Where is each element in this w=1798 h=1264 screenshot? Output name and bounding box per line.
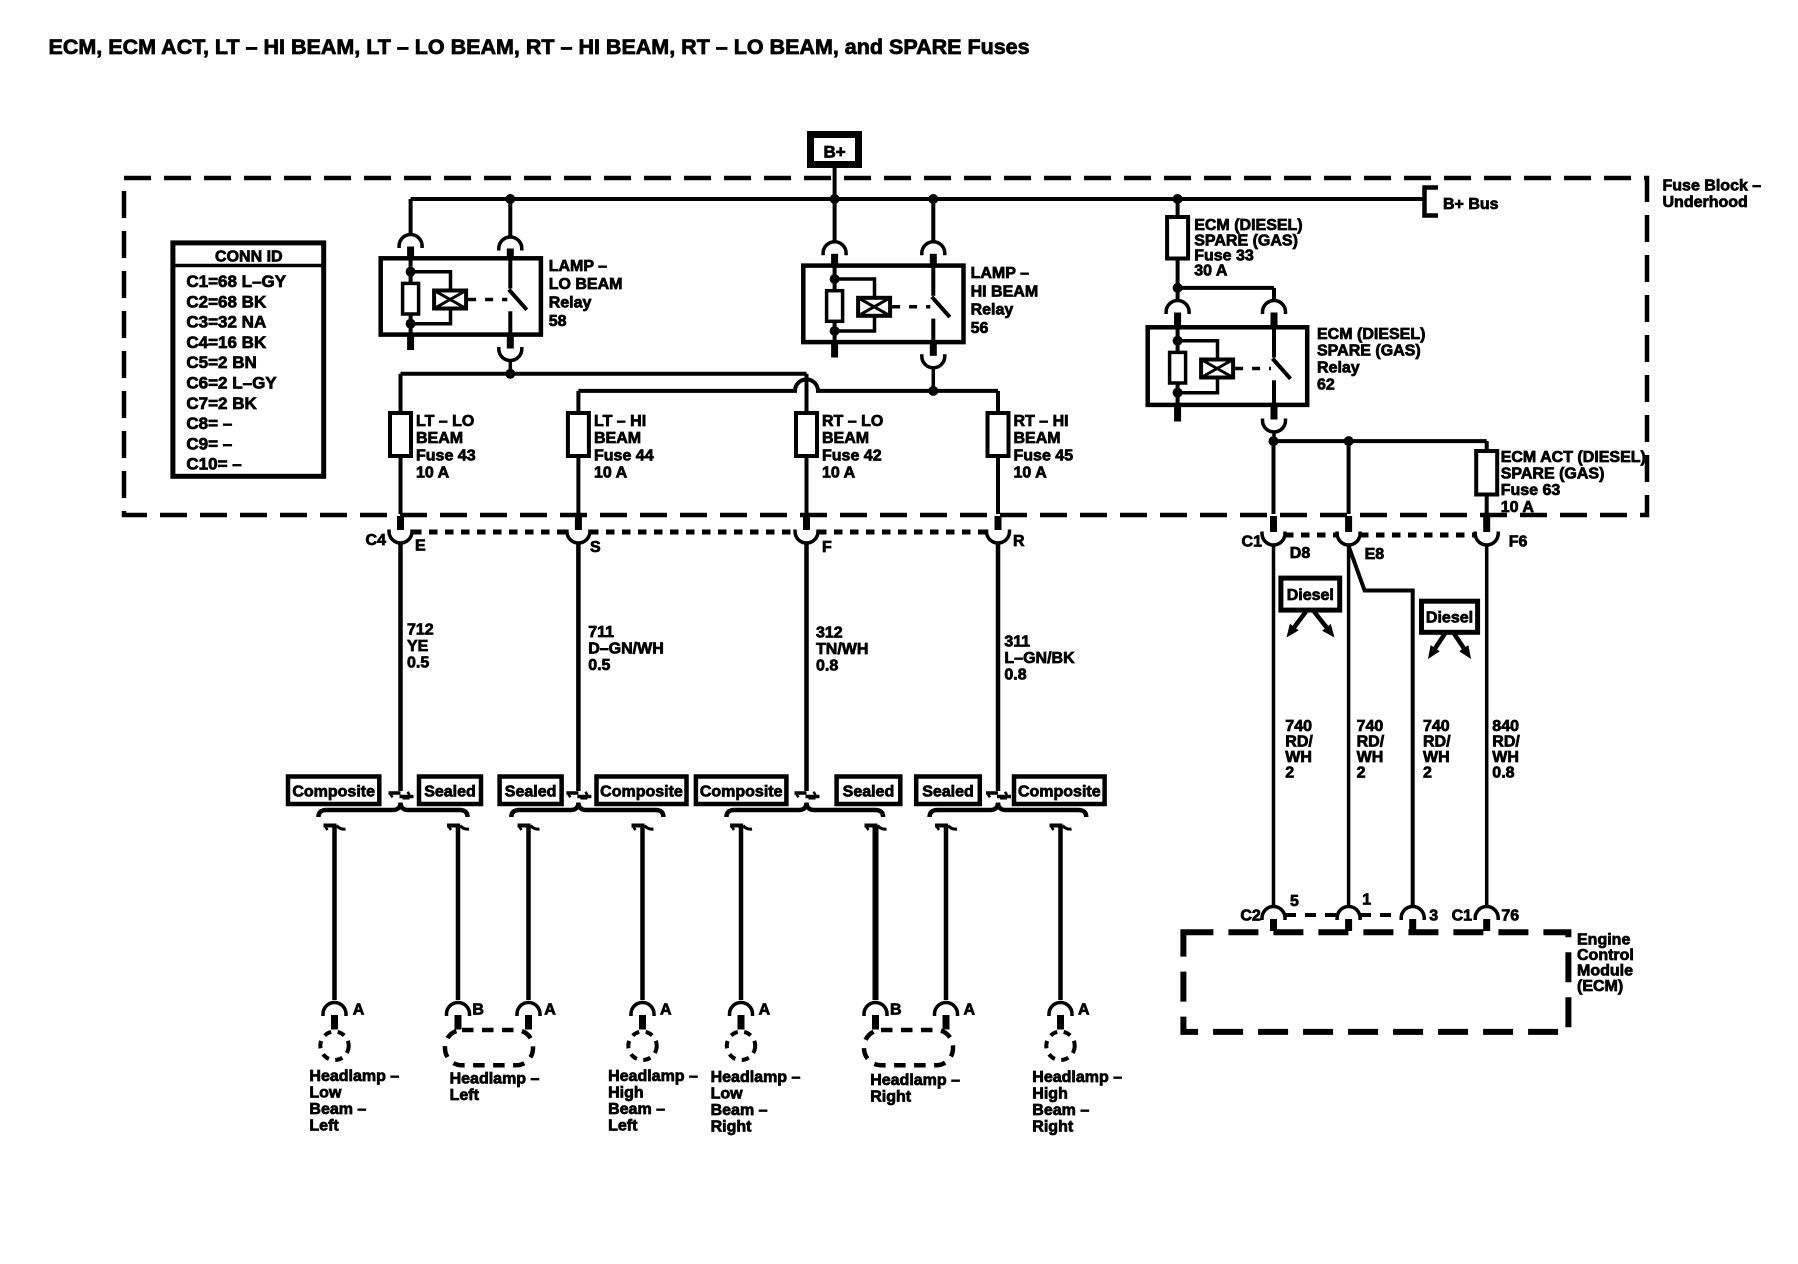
- ecm feed line: [1274, 439, 1487, 443]
- svg-text:740: 740: [1423, 718, 1450, 735]
- svg-text:Fuse 44: Fuse 44: [594, 447, 654, 464]
- diesel arrow left 1: [1294, 612, 1306, 628]
- pin stub ECM C2 pin 5: [1270, 919, 1277, 931]
- svg-text:Engine: Engine: [1577, 932, 1630, 949]
- svg-text:0.8: 0.8: [816, 657, 838, 674]
- wire to fuse44: [576, 391, 580, 413]
- svg-text:A: A: [759, 1002, 771, 1019]
- svg-text:A: A: [353, 1002, 365, 1019]
- connector line C1 right (dotted): [1285, 533, 1337, 538]
- svg-text:711: 711: [588, 624, 614, 641]
- pin stub ECM pin 1: [1345, 919, 1352, 931]
- svg-text:ECM, ECM ACT, LT – HI BEAM, LT: ECM, ECM ACT, LT – HI BEAM, LT – LO BEAM…: [49, 35, 1030, 59]
- svg-text:WH: WH: [1492, 749, 1519, 766]
- relay ECM (DIESEL) SPARE (GAS) Relay 62: [1148, 327, 1308, 405]
- svg-text:10 A: 10 A: [594, 465, 628, 482]
- svg-text:0.8: 0.8: [1004, 666, 1026, 683]
- svg-text:Sealed: Sealed: [843, 784, 895, 801]
- connector arc relay56 pin 2: [922, 242, 945, 256]
- wire end split F: [795, 791, 807, 795]
- wire fuse45 to connector R: [996, 456, 1000, 514]
- junction fuse33/relay62 pins: [1173, 283, 1183, 293]
- pin stub lamp LB-L: [331, 1015, 338, 1030]
- pin stub relay62 switch: [1271, 313, 1278, 329]
- svg-text:L–GN/BK: L–GN/BK: [1004, 650, 1075, 667]
- wire node to connector C1/D8: [1272, 441, 1276, 514]
- svg-text:Diesel: Diesel: [1426, 610, 1473, 627]
- svg-text:312: 312: [816, 625, 843, 642]
- svg-text:Module: Module: [1577, 963, 1633, 980]
- connector cup F: [795, 530, 818, 544]
- svg-text:Fuse 45: Fuse 45: [1014, 447, 1074, 464]
- junction E8 tap: [1344, 436, 1354, 446]
- svg-text:Right: Right: [711, 1119, 753, 1136]
- relay58 output stub: [507, 335, 514, 349]
- wire to lamp R pin A: [944, 827, 949, 1000]
- pin stub lamp LB-R: [738, 1015, 745, 1030]
- wire B+ to bus: [833, 167, 837, 199]
- wire 311 L-GN/BK: [996, 543, 1001, 791]
- svg-text:C5=2 BN: C5=2 BN: [186, 353, 256, 372]
- svg-text:Diesel: Diesel: [1287, 587, 1334, 604]
- svg-text:WH: WH: [1357, 749, 1384, 766]
- svg-text:10 A: 10 A: [1014, 465, 1048, 482]
- svg-text:Left: Left: [309, 1118, 339, 1135]
- svg-text:10 A: 10 A: [822, 465, 856, 482]
- svg-text:B+: B+: [823, 143, 845, 162]
- brace group left low beam: [319, 803, 468, 818]
- wire E8 split to pin 3: [1349, 546, 1413, 906]
- wire 740 RD/WH E8 to pin 1: [1347, 545, 1351, 906]
- Diesel callout box 1: [1281, 578, 1340, 610]
- svg-text:Control: Control: [1577, 947, 1634, 964]
- option box Composite: [1014, 777, 1105, 805]
- brace group right low beam: [727, 803, 884, 818]
- connector cup F6: [1475, 532, 1498, 546]
- svg-text:Composite: Composite: [292, 784, 375, 801]
- connector arc lamp HB-L: [631, 1003, 654, 1017]
- wire fuse42 to connector F: [805, 456, 809, 514]
- fuse RT-HI BEAM Fuse 45: [988, 413, 1009, 456]
- relay58 coil lower stub: [407, 335, 414, 350]
- wire to lamp L pin B: [456, 827, 461, 1000]
- svg-text:840: 840: [1492, 718, 1519, 735]
- svg-text:712: 712: [407, 622, 434, 639]
- svg-text:D–GN/WH: D–GN/WH: [588, 641, 664, 658]
- headlamp Right sealed (dashed stadium): [864, 1030, 953, 1065]
- svg-text:RD/: RD/: [1285, 733, 1313, 750]
- wire to fuse43: [399, 374, 403, 413]
- wire end split R: [986, 791, 998, 795]
- svg-text:ECM (DIESEL): ECM (DIESEL): [1317, 326, 1425, 343]
- wire bus to relay56 switch pin: [931, 201, 935, 241]
- connector arc relay56 pin 1: [823, 242, 846, 256]
- wire hook lamp R pin A: [935, 824, 948, 828]
- wire hook lamp L pin A: [518, 824, 531, 828]
- svg-text:Headlamp –: Headlamp –: [1032, 1069, 1122, 1086]
- svg-text:Beam –: Beam –: [711, 1102, 768, 1119]
- svg-text:C4: C4: [366, 532, 387, 549]
- connector cup relay58 output: [499, 347, 522, 361]
- svg-text:High: High: [1032, 1086, 1068, 1103]
- svg-text:Headlamp –: Headlamp –: [870, 1072, 960, 1089]
- svg-text:B: B: [472, 1002, 484, 1019]
- connector arc relay58 pin 1: [399, 235, 422, 249]
- wire node to connector E8: [1347, 441, 1351, 514]
- svg-text:5: 5: [1290, 893, 1299, 910]
- CONN ID table: [173, 243, 324, 476]
- svg-text:Right: Right: [1032, 1119, 1074, 1136]
- svg-text:58: 58: [549, 313, 567, 330]
- wire to lamp L pin A: [526, 827, 531, 1000]
- relay56 coil lower stub: [831, 342, 838, 357]
- wire to relay62 switch pin: [1178, 286, 1274, 290]
- svg-text:BEAM: BEAM: [1014, 430, 1061, 447]
- connector stub C1/D8: [1270, 516, 1277, 532]
- wire 740 RD/WH D8 to C2-5: [1272, 545, 1276, 906]
- connector arc relay58 pin 2: [499, 237, 522, 251]
- svg-text:Headlamp –: Headlamp –: [711, 1069, 801, 1086]
- hi beam feed line with crossover hop: [578, 379, 998, 390]
- svg-text:2: 2: [1357, 764, 1366, 781]
- connector arc lamp HB-R: [1049, 1003, 1072, 1017]
- connector arc ECM pin 3: [1401, 907, 1424, 921]
- relay LAMP - LO BEAM Relay 58: [381, 258, 541, 334]
- wire down to relay62 switch pin: [1272, 288, 1276, 300]
- svg-text:Left: Left: [608, 1118, 638, 1135]
- connector cup S: [567, 530, 590, 544]
- wire fuse63 to connector F6: [1485, 495, 1489, 515]
- connector arc lamp R pin A: [935, 1003, 958, 1017]
- wire to lamp LB-L: [332, 827, 337, 1000]
- svg-text:A: A: [1078, 1002, 1090, 1019]
- svg-text:E: E: [415, 538, 426, 555]
- svg-text:C4=16 BK: C4=16 BK: [186, 333, 267, 352]
- svg-text:C2=68 BK: C2=68 BK: [186, 292, 267, 311]
- Engine Control Module dashed box: [1183, 932, 1568, 1032]
- wire end split S: [566, 791, 578, 795]
- svg-text:LO BEAM: LO BEAM: [549, 276, 623, 293]
- connector cup R: [987, 530, 1010, 544]
- svg-text:RT – LO: RT – LO: [822, 413, 883, 430]
- svg-text:BEAM: BEAM: [822, 430, 869, 447]
- svg-text:Sealed: Sealed: [922, 784, 974, 801]
- option box Composite: [288, 777, 379, 805]
- wire hook lamp L pin B: [447, 824, 460, 828]
- junction relay62 output: [1269, 436, 1279, 446]
- junction relay56 output / hi-beam feed line: [928, 386, 938, 396]
- wire relay56 output to node: [932, 368, 936, 391]
- svg-text:Beam –: Beam –: [309, 1101, 366, 1118]
- svg-text:Low: Low: [309, 1085, 342, 1102]
- svg-text:Relay: Relay: [971, 302, 1014, 319]
- svg-text:Composite: Composite: [700, 784, 783, 801]
- svg-text:ECM ACT (DIESEL): ECM ACT (DIESEL): [1501, 449, 1646, 466]
- wire hook lamp R pin B: [865, 824, 878, 828]
- pin stub lamp L pin B: [455, 1015, 462, 1030]
- svg-text:0.5: 0.5: [588, 657, 610, 674]
- headlamp Left sealed (dashed stadium): [445, 1030, 533, 1065]
- connector cup relay62 output: [1263, 419, 1286, 433]
- wire hook lamp HB-L: [632, 824, 645, 828]
- connector arc lamp L pin A: [517, 1003, 540, 1017]
- fuse LT-HI BEAM Fuse 44: [568, 413, 589, 456]
- svg-text:C1: C1: [1452, 908, 1473, 925]
- svg-text:Sealed: Sealed: [424, 784, 476, 801]
- svg-text:Relay: Relay: [549, 295, 592, 312]
- svg-text:740: 740: [1357, 718, 1384, 735]
- svg-text:Sealed: Sealed: [505, 784, 557, 801]
- svg-text:0.8: 0.8: [1492, 764, 1514, 781]
- svg-text:RT – HI: RT – HI: [1014, 413, 1069, 430]
- svg-text:1: 1: [1362, 892, 1371, 909]
- svg-text:Headlamp –: Headlamp –: [450, 1071, 540, 1088]
- svg-text:Headlamp –: Headlamp –: [309, 1068, 399, 1085]
- wire to lamp HB-R: [1058, 827, 1063, 1000]
- svg-text:R: R: [1013, 533, 1025, 550]
- wire bus to relay58 switch pin: [508, 201, 512, 237]
- relay LAMP - HI BEAM Relay 56: [803, 266, 963, 343]
- connector arc ECM C2 pin 5: [1262, 907, 1285, 921]
- wire bus to relay58 coil pin: [409, 199, 413, 234]
- fuse LT-LO BEAM Fuse 43: [390, 413, 411, 456]
- svg-text:S: S: [590, 539, 601, 556]
- svg-text:WH: WH: [1285, 749, 1312, 766]
- junction relay58 output / lo-beam feed line: [505, 369, 515, 379]
- B+ bus wire: [411, 197, 1423, 201]
- wire to lamp HB-L: [640, 827, 645, 1000]
- svg-text:Fuse 42: Fuse 42: [822, 447, 882, 464]
- relay62 coil lower stub: [1174, 405, 1181, 422]
- B+ power feed box: [811, 135, 859, 165]
- svg-text:LAMP –: LAMP –: [971, 265, 1029, 282]
- svg-text:C6=2 L–GY: C6=2 L–GY: [186, 374, 277, 393]
- connector arc ECM C1 pin 76: [1475, 907, 1498, 921]
- connector cup E8: [1337, 532, 1360, 546]
- svg-text:BEAM: BEAM: [416, 430, 463, 447]
- svg-text:LT – LO: LT – LO: [416, 413, 474, 430]
- svg-text:B: B: [890, 1002, 902, 1019]
- svg-text:SPARE (GAS): SPARE (GAS): [1317, 343, 1421, 360]
- connector arc lamp LB-R: [730, 1003, 753, 1017]
- wire 840 RD/WH F6 to C1-76: [1485, 545, 1489, 906]
- Diesel callout box 2: [1422, 601, 1478, 632]
- svg-text:LAMP –: LAMP –: [549, 258, 607, 275]
- connector arc relay62 pin 1: [1166, 301, 1189, 315]
- connector arc relay62 pin 2: [1263, 301, 1286, 315]
- svg-text:B+ Bus: B+ Bus: [1443, 196, 1499, 213]
- headlamp Low Beam Right (dashed circle): [727, 1032, 755, 1060]
- svg-text:2: 2: [1285, 764, 1294, 781]
- option box Sealed: [837, 777, 901, 805]
- pin stub lamp HB-R: [1057, 1015, 1064, 1030]
- fuse ECM(DIESEL)/SPARE(GAS) Fuse 33 30A: [1167, 217, 1188, 259]
- svg-text:A: A: [660, 1002, 672, 1019]
- relay56 output stub: [930, 342, 937, 356]
- pin stub ECM C1 pin 76: [1483, 919, 1490, 931]
- junction bus/fuse33: [1173, 194, 1183, 204]
- pin stub relay58 coil: [407, 247, 414, 260]
- wire bus to relay56 coil pin: [833, 201, 837, 241]
- wire bus to fuse33: [1176, 201, 1180, 217]
- wire 712 YE: [398, 543, 403, 791]
- junction bus/relay58: [505, 194, 515, 204]
- svg-text:Relay: Relay: [1317, 360, 1360, 377]
- connector arc ECM pin 1: [1337, 907, 1360, 921]
- svg-text:56: 56: [971, 320, 989, 337]
- svg-text:Headlamp –: Headlamp –: [608, 1068, 698, 1085]
- wire hook lamp HB-R: [1050, 824, 1063, 828]
- connector stub F: [803, 516, 810, 530]
- pin stub lamp R pin A: [943, 1015, 950, 1030]
- connector stub E8: [1345, 516, 1352, 532]
- svg-text:C2: C2: [1240, 908, 1261, 925]
- diesel arrow right 1: [1314, 612, 1327, 628]
- connector cup E: [389, 530, 412, 544]
- pin stub relay62 coil: [1174, 313, 1181, 329]
- svg-text:RD/: RD/: [1423, 733, 1451, 750]
- svg-text:740: 740: [1285, 718, 1312, 735]
- svg-text:RD/: RD/: [1357, 733, 1385, 750]
- svg-text:2: 2: [1423, 764, 1432, 781]
- svg-text:Low: Low: [711, 1086, 744, 1103]
- wire 312 TN/WH: [804, 543, 809, 791]
- svg-text:A: A: [964, 1002, 976, 1019]
- wire end split E: [389, 791, 401, 795]
- headlamp High Beam Right (dashed circle): [1046, 1032, 1074, 1060]
- svg-text:F6: F6: [1509, 534, 1528, 551]
- wire 711 D-GN/WH: [576, 543, 581, 791]
- svg-text:10 A: 10 A: [416, 465, 450, 482]
- connector stub F6: [1483, 516, 1490, 532]
- brace group right hi beam: [930, 803, 1087, 818]
- svg-text:YE: YE: [407, 638, 429, 655]
- svg-text:Composite: Composite: [1018, 784, 1101, 801]
- svg-text:BEAM: BEAM: [594, 430, 641, 447]
- pin stub lamp HB-L: [639, 1015, 646, 1030]
- option box Composite: [597, 777, 687, 805]
- diesel arrow right 2: [1454, 634, 1464, 649]
- connector stub R: [995, 516, 1002, 530]
- svg-text:High: High: [608, 1085, 644, 1102]
- svg-text:RD/: RD/: [1492, 733, 1520, 750]
- wire to lamp LB-R: [739, 827, 744, 1000]
- junction bus/B+/relay56: [830, 194, 840, 204]
- pin stub relay56 coil: [831, 254, 838, 266]
- svg-text:SPARE (GAS): SPARE (GAS): [1501, 466, 1605, 483]
- connector stub S: [575, 516, 582, 530]
- wire to lamp R pin B: [873, 827, 879, 1000]
- connector arc lamp L pin B: [447, 1003, 470, 1017]
- svg-text:311: 311: [1004, 634, 1030, 651]
- svg-text:Beam –: Beam –: [1032, 1102, 1089, 1119]
- wire to fuse45: [996, 391, 1000, 413]
- relay62 output stub: [1271, 405, 1278, 420]
- connector cup relay56 output: [922, 354, 945, 368]
- headlamp Low Beam Left (dashed circle): [320, 1032, 348, 1060]
- wire relay58 output to node: [509, 361, 513, 374]
- svg-text:F: F: [822, 539, 832, 556]
- pin stub relay58 switch: [507, 249, 514, 260]
- diesel arrow left 2: [1435, 634, 1445, 649]
- connector arc lamp R pin B: [864, 1003, 887, 1017]
- svg-text:C1: C1: [1242, 534, 1263, 551]
- ECM pin row dashes: [1285, 913, 1337, 917]
- svg-text:C3=32 NA: C3=32 NA: [186, 313, 266, 332]
- option box Sealed: [500, 777, 562, 805]
- option box Sealed: [916, 777, 980, 805]
- svg-text:LT – HI: LT – HI: [594, 413, 646, 430]
- B+ Bus bracket terminal: [1425, 188, 1439, 216]
- pin stub lamp R pin B: [872, 1015, 879, 1030]
- svg-text:Fuse Block –: Fuse Block –: [1663, 178, 1762, 195]
- svg-text:Composite: Composite: [600, 784, 683, 801]
- wire hook lamp LB-L: [324, 824, 337, 828]
- svg-text:Underhood: Underhood: [1663, 194, 1748, 211]
- wire to fuse42: [805, 374, 809, 413]
- wire fuse43 to connector E: [399, 456, 403, 514]
- pin stub relay56 switch: [930, 254, 937, 266]
- svg-text:30 A: 30 A: [1194, 263, 1228, 280]
- svg-text:62: 62: [1317, 377, 1335, 394]
- svg-text:HI BEAM: HI BEAM: [971, 283, 1039, 300]
- junction bus/relay56 switch: [928, 194, 938, 204]
- svg-text:C9= –: C9= –: [186, 434, 232, 453]
- wire hook lamp LB-R: [730, 824, 743, 828]
- svg-text:C7=2 BK: C7=2 BK: [186, 394, 257, 413]
- fuse block underhood dashed border: [124, 178, 1647, 515]
- svg-text:WH: WH: [1423, 749, 1450, 766]
- svg-text:Beam –: Beam –: [608, 1101, 665, 1118]
- pin stub ECM pin 3: [1409, 919, 1416, 931]
- lo beam feed line: [401, 372, 807, 376]
- connector cup C1/D8: [1262, 532, 1285, 546]
- wire to fuse63: [1485, 441, 1489, 451]
- svg-text:TN/WH: TN/WH: [816, 641, 868, 658]
- option box Composite: [696, 777, 787, 805]
- connector stub E: [397, 516, 404, 530]
- svg-text:Fuse 63: Fuse 63: [1501, 482, 1561, 499]
- svg-text:Left: Left: [450, 1087, 480, 1104]
- svg-text:10 A: 10 A: [1501, 499, 1535, 516]
- svg-text:CONN ID: CONN ID: [215, 249, 283, 266]
- svg-text:Right: Right: [870, 1089, 912, 1106]
- svg-text:C1=68 L–GY: C1=68 L–GY: [186, 272, 286, 291]
- connector arc lamp LB-L: [323, 1003, 346, 1017]
- svg-text:E8: E8: [1365, 546, 1385, 563]
- wire relay62 output to node: [1272, 432, 1276, 441]
- pin stub lamp L pin A: [525, 1015, 532, 1030]
- svg-text:76: 76: [1501, 908, 1519, 925]
- fuse RT-LO BEAM Fuse 42: [796, 413, 817, 456]
- svg-text:D8: D8: [1290, 545, 1311, 562]
- wire fuse33 to relay62: [1176, 259, 1180, 300]
- svg-text:3: 3: [1429, 908, 1438, 925]
- svg-text:(ECM): (ECM): [1577, 978, 1623, 995]
- svg-text:Fuse 43: Fuse 43: [416, 447, 476, 464]
- wire fuse44 to connector S: [576, 456, 580, 514]
- svg-text:C8= –: C8= –: [186, 414, 232, 433]
- connector line C4 (dotted): [413, 530, 567, 535]
- option box Sealed: [419, 777, 481, 805]
- headlamp High Beam Left (dashed circle): [628, 1032, 656, 1060]
- svg-text:C10= –: C10= –: [186, 455, 241, 474]
- svg-text:A: A: [544, 1002, 556, 1019]
- fuse ECM ACT (DIESEL)/SPARE(GAS) Fuse 63 10A: [1476, 451, 1497, 495]
- svg-text:0.5: 0.5: [407, 654, 429, 671]
- brace group left hi beam: [511, 803, 663, 818]
